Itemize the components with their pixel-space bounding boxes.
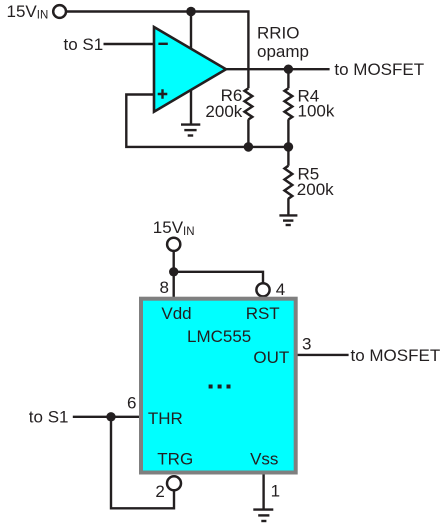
junction output/R4 bbox=[284, 65, 293, 74]
svg-text:RST: RST bbox=[246, 304, 280, 323]
svg-text:4: 4 bbox=[276, 280, 285, 299]
wire op-amp output to MOSFET bbox=[225, 68, 330, 70]
wire R4 bottom to node bbox=[287, 119, 289, 147]
ground R5 bbox=[279, 215, 297, 225]
resistor R4 zigzag bbox=[285, 88, 293, 119]
wire OUT pin 3 to MOSFET bbox=[296, 354, 349, 356]
junction node R4/R5 bbox=[284, 142, 294, 152]
ground Vss bbox=[253, 510, 273, 521]
svg-text:to S1: to S1 bbox=[29, 407, 69, 426]
IC U2 LMC555 body bbox=[141, 299, 296, 473]
svg-text:100k: 100k bbox=[298, 102, 335, 121]
terminal TRG pin 2 bbox=[167, 476, 181, 490]
svg-text:to MOSFET: to MOSFET bbox=[351, 346, 441, 365]
svg-text:opamp: opamp bbox=[257, 42, 309, 61]
svg-text:6: 6 bbox=[127, 394, 136, 413]
wire op-amp V+ supply and V- to ground bbox=[190, 12, 192, 124]
wire Vss pin 1 to ground bbox=[262, 473, 264, 510]
terminal RST pin 4 bbox=[256, 283, 269, 296]
ground op-amp bbox=[181, 125, 200, 136]
svg-text:3: 3 bbox=[302, 334, 311, 353]
junction node R6/divider bbox=[244, 142, 254, 152]
svg-text:to S1: to S1 bbox=[64, 35, 104, 54]
wire R5 top bbox=[287, 147, 289, 166]
wire non-inverting input feedback to divider node bbox=[126, 95, 288, 147]
svg-text:LMC555: LMC555 bbox=[187, 327, 251, 346]
svg-text:Vss: Vss bbox=[250, 450, 278, 469]
svg-text:THR: THR bbox=[148, 409, 183, 428]
svg-text:OUT: OUT bbox=[253, 348, 289, 367]
wire R4 top connection bbox=[287, 69, 289, 88]
wire top rail 15V to R6 branch bbox=[66, 12, 248, 89]
wire R5 bottom to ground bbox=[287, 198, 289, 215]
wire to S1 into THR pin 6 bbox=[73, 416, 141, 418]
svg-text:Vdd: Vdd bbox=[161, 304, 191, 323]
svg-text:200k: 200k bbox=[205, 102, 242, 121]
resistor R6 zigzag bbox=[245, 88, 253, 119]
svg-text:8: 8 bbox=[160, 278, 169, 297]
svg-text:RRIO: RRIO bbox=[257, 24, 300, 43]
wire branch to RST pin 4 bbox=[174, 272, 263, 283]
wire R6 bottom to node bbox=[247, 119, 249, 147]
op-amp U1 bbox=[154, 27, 226, 112]
resistor R5 zigzag bbox=[285, 166, 293, 199]
terminal 15V_IN bottom bbox=[167, 238, 180, 251]
junction to-S1/TRG branch bbox=[106, 412, 115, 421]
svg-text:2: 2 bbox=[155, 482, 164, 501]
junction top rail bbox=[186, 7, 196, 17]
svg-text:TRG: TRG bbox=[157, 450, 193, 469]
wire 15V terminal down to Vdd pin 8 bbox=[172, 252, 174, 300]
wire THR node down around to TRG pin 2 bbox=[111, 417, 174, 509]
svg-text:1: 1 bbox=[271, 481, 280, 500]
ellipsis dots inside IC bbox=[209, 385, 213, 389]
junction 15V/RST branch bbox=[169, 267, 178, 276]
svg-text:to MOSFET: to MOSFET bbox=[334, 60, 424, 79]
wire inverting input from S1 bbox=[104, 43, 154, 45]
svg-text:200k: 200k bbox=[297, 180, 334, 199]
terminal 15V_IN top bbox=[53, 5, 66, 18]
